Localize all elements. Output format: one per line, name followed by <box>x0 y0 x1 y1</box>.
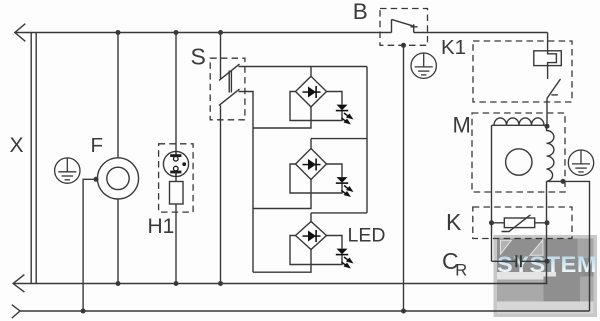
wire K1 coil to contact <box>547 66 549 79</box>
wire bottom rail N <box>13 283 547 285</box>
diode rectifier 3 <box>303 230 321 242</box>
wire PE rail <box>20 310 590 312</box>
switch S mechanical link <box>229 71 231 93</box>
switch B blade <box>392 19 414 26</box>
ground PE symbol at F <box>55 158 80 183</box>
arrow top-left <box>15 24 25 42</box>
wire K1 to motor <box>546 98 548 126</box>
svg-text:B: B <box>353 0 368 24</box>
arrow PE rail <box>12 305 20 318</box>
wire K1 feeder <box>547 33 549 51</box>
fuse F body <box>97 158 138 199</box>
wire motor down right side <box>546 181 548 283</box>
loop board 2 <box>290 164 342 193</box>
node H1 top <box>174 30 179 35</box>
node S bottom <box>218 281 223 286</box>
svg-text:M: M <box>453 113 471 138</box>
enclosure M <box>472 113 565 192</box>
node F earth <box>94 177 99 182</box>
wire rectifier 1 return <box>253 107 311 128</box>
switch S pole 2 <box>219 89 240 105</box>
wire rectifier 3 return <box>253 250 311 273</box>
switch S pole 1 <box>219 64 240 80</box>
motor M aux winding <box>547 125 554 181</box>
wire H1 branch bottom <box>175 204 177 284</box>
terminal strip X (double line) <box>31 33 36 284</box>
bridge rectifier 3 <box>296 222 327 250</box>
ground PE symbol at B <box>411 53 436 78</box>
relay K1 coil <box>534 51 562 66</box>
node F earth rail <box>81 309 86 314</box>
svg-text:LED: LED <box>348 225 386 247</box>
capacitor CR leads <box>492 260 547 262</box>
LED 1 <box>336 105 354 125</box>
node CR right <box>545 259 550 264</box>
watermark SYSTEM logo <box>494 235 598 317</box>
diode rectifier 1 <box>303 86 321 98</box>
wire H1 branch top <box>175 33 177 152</box>
loop board 1 <box>290 92 342 121</box>
resistor in H1 <box>170 182 184 205</box>
node B bottom <box>401 43 406 48</box>
wire motor right to PE <box>547 181 590 311</box>
svg-text:K: K <box>446 209 462 235</box>
wire lamp to resistor <box>175 177 177 182</box>
enclosure K <box>473 207 572 239</box>
switch K1 tick <box>551 94 558 96</box>
capacitor CR plates <box>516 255 521 267</box>
thermistor K body <box>504 218 534 228</box>
wire S output 2 <box>239 92 254 273</box>
wire stub to rectifier 1 <box>310 67 312 77</box>
thermistor K diagonal <box>502 215 531 232</box>
wire S output 1 <box>239 66 368 68</box>
arrow bottom rail N <box>13 275 24 293</box>
wire S pole2 down to N rail <box>220 105 222 283</box>
enclosure B <box>380 9 428 46</box>
switch B tick <box>411 26 418 28</box>
diode rectifier 2 <box>303 159 321 171</box>
enclosure S <box>210 58 245 120</box>
enclosure H1 <box>159 144 194 212</box>
motor M stator frame <box>492 125 547 261</box>
node F top <box>116 30 121 35</box>
wire top rail L <box>15 32 548 34</box>
node M top <box>545 124 550 129</box>
neon lamp H1 <box>163 151 188 176</box>
svg-text:X: X <box>10 134 24 157</box>
wire F earth connection <box>83 179 98 311</box>
node M right <box>561 179 566 184</box>
node H1 bottom <box>174 281 179 286</box>
node K right <box>545 220 550 225</box>
svg-text:R: R <box>455 262 467 280</box>
wire B to PE rail <box>403 45 405 311</box>
node B rail <box>401 309 406 314</box>
wire F branch <box>117 33 119 284</box>
switch B stub left <box>391 19 393 32</box>
LED symbols <box>303 86 354 269</box>
switch K1 contact blade <box>547 79 561 98</box>
motor M main winding <box>494 118 544 125</box>
dashed enclosure boxes <box>159 9 572 239</box>
ground PE symbol at M <box>568 150 593 175</box>
loop board 3 <box>290 236 342 265</box>
LED 3 <box>336 249 354 269</box>
wire S branch input <box>220 33 222 79</box>
wire stub to rectifier 3 <box>310 213 312 222</box>
svg-text:S: S <box>191 44 206 70</box>
thermistor K leads <box>492 222 548 224</box>
motor M rotor <box>506 149 532 175</box>
svg-text:F: F <box>91 134 104 157</box>
bridge rectifier 2 <box>296 149 327 180</box>
node F bottom <box>116 281 121 286</box>
wire rectifier 2 return <box>253 180 311 209</box>
node S top <box>218 30 223 35</box>
svg-text:K1: K1 <box>441 36 466 59</box>
svg-text:H1: H1 <box>148 215 175 238</box>
bridge rectifier 1 <box>296 76 327 107</box>
node K left <box>489 220 494 225</box>
switch B stub right <box>413 24 415 32</box>
LED 2 <box>336 177 354 197</box>
neon lamp H1 internals <box>170 151 186 176</box>
enclosure K1 <box>473 41 572 102</box>
wire stub to rectifier 2 <box>310 139 312 149</box>
wire bridge right feeder <box>311 67 367 213</box>
